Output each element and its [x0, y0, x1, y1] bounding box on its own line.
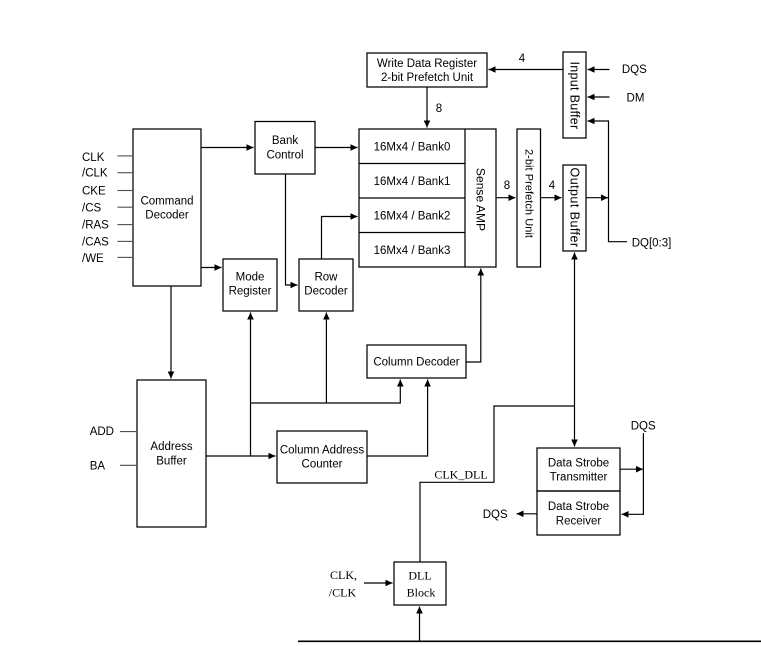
svg-text:Register: Register [229, 286, 272, 298]
svg-text:8: 8 [504, 180, 510, 192]
column decoder box [367, 345, 466, 378]
svg-text:BA: BA [90, 461, 106, 473]
pin tick /cas [118, 240, 134, 242]
svg-text:Data Strobe: Data Strobe [548, 501, 609, 513]
svg-text:2-bit Prefetch Unit: 2-bit Prefetch Unit [523, 149, 535, 238]
svg-text:DM: DM [627, 93, 645, 105]
wire write data register to bank array [426, 87, 428, 128]
svg-text:CLK: CLK [82, 152, 105, 164]
row decoder box [299, 259, 353, 311]
wire bottom line to dll block [419, 607, 421, 642]
svg-text:4: 4 [519, 53, 526, 65]
svg-text:16Mx4 / Bank2: 16Mx4 / Bank2 [374, 210, 451, 222]
svg-text:/WE: /WE [82, 253, 104, 265]
wire output buffer to dq node [586, 197, 608, 199]
svg-text:DQS: DQS [622, 64, 647, 76]
svg-text:Command: Command [140, 196, 193, 208]
wire dq line to input buffer [588, 121, 628, 242]
svg-text:Input Buffer: Input Buffer [568, 62, 582, 130]
bank row divider 3 [359, 232, 465, 234]
wire command decoder to mode register [201, 267, 222, 269]
address buffer box [137, 380, 206, 527]
write data register box [367, 53, 487, 87]
svg-text:Sense AMP: Sense AMP [474, 168, 488, 231]
svg-text:Bank: Bank [272, 135, 298, 147]
svg-text:ADD: ADD [90, 426, 114, 438]
svg-text:DQS: DQS [631, 421, 656, 433]
svg-text:Data Strobe: Data Strobe [548, 458, 609, 470]
svg-text:CLK,: CLK, [330, 568, 357, 582]
wire address buffer to column address counter [206, 455, 276, 457]
svg-text:16Mx4 / Bank3: 16Mx4 / Bank3 [374, 245, 451, 257]
wire input buffer to write data register [489, 69, 564, 71]
wire clk_dll net [420, 406, 575, 562]
wire column decoder to sense amp [466, 269, 481, 363]
bank row divider 2 [359, 197, 465, 199]
svg-text:2-bit Prefetch Unit: 2-bit Prefetch Unit [381, 72, 474, 84]
command decoder box [133, 129, 201, 286]
svg-text:Buffer: Buffer [156, 456, 187, 468]
svg-text:Receiver: Receiver [556, 516, 602, 528]
pin tick clk [118, 155, 134, 157]
svg-text:Column Address: Column Address [280, 445, 365, 457]
data strobe receiver box [537, 491, 620, 535]
svg-text:Decoder: Decoder [304, 286, 348, 298]
dll block box [394, 562, 446, 605]
svg-text:Transmitter: Transmitter [550, 472, 608, 484]
svg-text:Address: Address [150, 441, 192, 453]
output buffer box [563, 165, 586, 251]
input buffer box [563, 52, 586, 138]
data strobe transmitter box [537, 448, 620, 491]
wire bank control to bank array [315, 147, 358, 149]
wire output buffer to data strobe transmitter [574, 253, 576, 447]
svg-text:Decoder: Decoder [145, 210, 189, 222]
sense amp divider [464, 129, 466, 267]
pin tick ba [120, 464, 137, 466]
svg-text:Block: Block [407, 586, 436, 600]
svg-text:4: 4 [549, 180, 556, 192]
svg-text:Mode: Mode [236, 272, 265, 284]
wire data strobe receiver to dqs out [517, 513, 538, 515]
svg-text:/CS: /CS [82, 202, 102, 214]
svg-text:DQS: DQS [483, 509, 508, 521]
svg-text:/CLK: /CLK [329, 586, 357, 600]
wire command decoder to bank control [201, 147, 254, 149]
wire data strobe transmitter to dqs pad [620, 468, 643, 470]
wire clk to dll block [364, 582, 393, 584]
wire horizontal bus to column decoder [251, 380, 401, 404]
wire dqs pad to data strobe receiver [622, 433, 644, 514]
svg-text:CLK_DLL: CLK_DLL [434, 468, 487, 482]
pin tick /clk [118, 172, 134, 174]
pin tick /ras [118, 224, 134, 226]
svg-text:8: 8 [436, 103, 442, 115]
wire command decoder to address buffer [170, 286, 172, 379]
wire column address counter to column decoder [367, 380, 428, 457]
wire row decoder to bank array [322, 217, 358, 260]
bank array box [359, 129, 496, 267]
wire bus to row decoder [325, 313, 327, 404]
2-bit prefetch unit box [517, 129, 541, 267]
bank row divider 1 [359, 163, 465, 165]
wire sense amp to prefetch unit [496, 197, 516, 199]
mode register box [223, 259, 277, 311]
svg-text:CKE: CKE [82, 186, 106, 198]
pin tick add [120, 431, 137, 433]
bottom border line [298, 640, 761, 642]
wire junction to mode register [250, 313, 252, 457]
wire dm to input buffer [588, 96, 610, 98]
wire dqs to input buffer [588, 69, 610, 71]
pin tick cke [118, 190, 134, 192]
svg-text:DLL: DLL [408, 569, 431, 583]
pin tick /cs [118, 206, 134, 208]
svg-text:/CAS: /CAS [82, 236, 109, 248]
svg-text:Output Buffer: Output Buffer [568, 168, 582, 248]
column address counter box [277, 431, 367, 483]
svg-text:Counter: Counter [302, 459, 343, 471]
svg-text:Row: Row [314, 272, 338, 284]
svg-text:/RAS: /RAS [82, 220, 109, 232]
svg-text:DQ[0:3]: DQ[0:3] [632, 238, 672, 250]
wire bank control to row decoder [286, 174, 298, 285]
svg-text:16Mx4 / Bank0: 16Mx4 / Bank0 [374, 141, 451, 153]
svg-text:Write Data Register: Write Data Register [377, 58, 477, 70]
wire prefetch unit to output buffer [541, 197, 562, 199]
svg-text:Control: Control [266, 150, 303, 162]
svg-text:/CLK: /CLK [82, 168, 108, 180]
bank control box [255, 122, 315, 175]
pin tick /we [118, 256, 134, 258]
svg-text:Column Decoder: Column Decoder [373, 357, 459, 369]
svg-text:16Mx4 / Bank1: 16Mx4 / Bank1 [374, 176, 451, 188]
